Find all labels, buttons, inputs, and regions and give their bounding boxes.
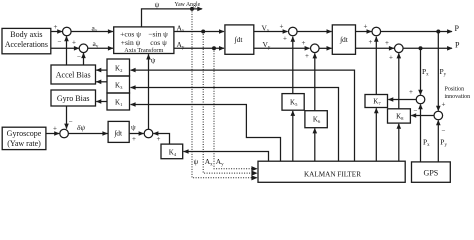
arrow K4 into S9: [153, 131, 159, 136]
block: Axis Transform: [114, 27, 174, 54]
rail1: dt2 to summer S5: [356, 31, 372, 33]
svg-text:Yaw Angle: Yaw Angle: [175, 2, 201, 8]
wire S10 to integrator dt3: [68, 133, 107, 135]
rail2: dt1 to summer S4 (V_y): [254, 47, 310, 49]
arrow S8 into K8: [411, 113, 417, 118]
svg-text:ψ: ψ: [194, 157, 199, 166]
arrow P output top: [447, 29, 453, 34]
wire dt3 to summer S9: [129, 133, 144, 135]
svg-text:+: +: [442, 101, 446, 109]
arrow dotted psi into Kalman: [251, 175, 257, 180]
summer S7 (P_x innovation): [416, 95, 425, 104]
arrow GPS up into S8: [436, 120, 441, 126]
wire K1 to Gyro Bias: [96, 101, 107, 103]
rail1: Axis Transform to integrator dt1 (A_x): [174, 31, 224, 33]
block: KALMAN FILTER: [258, 161, 405, 182]
rail1: S5 to output P: [381, 31, 452, 33]
svg-text:+: +: [305, 52, 309, 60]
rail2: Axis Transform to integrator dt1 (A_y): [174, 47, 224, 49]
svg-text:−: −: [69, 118, 73, 126]
arrow into S2: [74, 46, 80, 51]
arrow rail1 into dt1: [219, 29, 225, 34]
rail2: dt2 to summer S6: [356, 47, 395, 49]
arrow into S1: [57, 29, 63, 34]
arrow dotted A_y into Kalman: [251, 166, 257, 171]
svg-text:Accelerations: Accelerations: [5, 40, 48, 49]
dotted wire A_x to Kalman: [203, 32, 256, 174]
wire K4 up and into S9: [153, 134, 169, 145]
dotted wire psi to Kalman: [192, 9, 257, 178]
svg-text:Accel Bias: Accel Bias: [56, 71, 91, 80]
rail2: S4 to integrator dt2: [319, 47, 332, 49]
block: gain K7: [365, 95, 388, 108]
node on rail2 right (P): [419, 46, 423, 50]
block: gain K3: [107, 76, 130, 93]
arrow into S3: [283, 29, 289, 34]
arrow rail2 into dt2: [327, 46, 333, 51]
svg-text:+: +: [53, 125, 57, 133]
svg-text:ψ: ψ: [155, 0, 160, 9]
wire node rail1 down to summer S8: [437, 32, 439, 111]
block: gain K8: [388, 109, 411, 123]
svg-text:+: +: [72, 39, 76, 47]
arrow down into S7: [418, 90, 423, 96]
arrow dt3 into S9: [139, 131, 145, 136]
arrow rail2 into dt1: [219, 46, 225, 51]
wire Accel Bias up to S2: [83, 53, 85, 65]
wire S2 to Axis Transform (a_y): [88, 47, 113, 49]
arrow Kalman up into K6: [313, 128, 318, 133]
block: integrator dt2: [332, 25, 355, 54]
svg-text:innovation: innovation: [445, 94, 471, 100]
arrow down into S8: [436, 106, 441, 112]
summer S6: [395, 44, 404, 53]
wire node rail2 down to summer S7: [420, 48, 422, 94]
svg-text:ψ: ψ: [131, 123, 136, 132]
wire Gyro Bias down to summer S10: [66, 106, 68, 129]
wire K6 up to S4: [314, 53, 316, 110]
svg-text:+: +: [54, 23, 58, 31]
feedback line3 staircase into K1: [131, 105, 281, 162]
arrow Kalman up into K5: [291, 110, 296, 116]
svg-text:−: −: [414, 107, 418, 115]
wire K7 up to S5: [375, 37, 377, 95]
summer S2: [79, 44, 88, 53]
arrow into S4: [305, 46, 311, 51]
svg-text:+: +: [132, 135, 136, 143]
svg-text:∫dt: ∫dt: [113, 129, 123, 138]
block: gain K1: [107, 93, 130, 110]
svg-text:δψ: δψ: [77, 123, 85, 132]
arrow a_y into Axis Transform: [108, 46, 114, 51]
svg-text:+: +: [364, 23, 368, 31]
block: Body axis Accelerations: [2, 28, 51, 53]
svg-text:KALMAN FILTER: KALMAN FILTER: [304, 170, 361, 178]
block: gain K5: [282, 94, 304, 111]
wire GPS up to S7: [420, 105, 422, 162]
arrow K8 up into S6: [397, 53, 402, 59]
node on rail1 (A_x): [201, 30, 205, 34]
svg-text:Body axis: Body axis: [10, 30, 42, 39]
wire Kalman to K8: [398, 124, 400, 161]
summer S3: [289, 27, 298, 36]
wire Axis Transform top to yaw angle line: [142, 9, 203, 27]
wire S7 to K7: [388, 99, 416, 101]
arrow K3 into Accel Bias: [96, 80, 102, 85]
arrow K1 into Gyro Bias: [96, 99, 102, 104]
svg-text:∫dt: ∫dt: [339, 35, 349, 44]
block: gain K2: [107, 59, 130, 76]
wire GPS up to S8: [437, 121, 439, 162]
arrow P output bottom: [447, 46, 453, 51]
arrow yaw angle out: [197, 7, 203, 12]
arrow S10 into dt3: [102, 131, 108, 136]
svg-text:ψ: ψ: [151, 56, 156, 65]
svg-text:+sin ψ: +sin ψ: [121, 38, 141, 47]
arrow up into S1: [64, 36, 69, 42]
arrow S7 into K7: [388, 97, 394, 102]
wire K3 to Accel Bias: [96, 81, 107, 83]
arrow K7 up into S5: [374, 36, 379, 42]
rail1: S3 to integrator dt2: [297, 31, 332, 33]
rail2: S6 to output P: [403, 47, 452, 49]
block: Gyroscope (Yaw rate): [2, 127, 46, 149]
svg-text:+: +: [409, 88, 413, 96]
svg-text:P: P: [455, 40, 460, 49]
svg-text:−: −: [58, 38, 62, 46]
block: Accel Bias: [51, 65, 96, 84]
svg-text:+: +: [157, 135, 161, 143]
wire S9 up to Axis Transform (psi): [148, 54, 150, 129]
svg-text:Position: Position: [445, 87, 465, 93]
block: integrator dt1: [225, 25, 254, 54]
arrow line3 into K1: [130, 102, 136, 107]
wire Kalman to K6: [314, 129, 316, 162]
svg-text:+: +: [283, 35, 287, 43]
arrow line1 into K2: [130, 68, 136, 73]
arrow into S5: [367, 29, 373, 34]
svg-text:GPS: GPS: [424, 168, 439, 177]
arrow up into S2: [81, 53, 86, 59]
svg-text:+: +: [302, 39, 306, 47]
wire S1 to Axis Transform (a_x): [71, 31, 113, 33]
arrow K6 up into S4: [313, 53, 318, 59]
feedback line2 into K3: [131, 88, 339, 162]
arrow S9 psi up into Axis Transform: [146, 54, 151, 60]
svg-text:cos ψ: cos ψ: [150, 38, 167, 47]
wire Gyroscope to summer S10: [46, 133, 59, 135]
svg-text:(Yaw rate): (Yaw rate): [7, 139, 41, 148]
arrow Kalman up into K7: [374, 108, 379, 114]
arrow Gyroscope into S10: [54, 131, 60, 136]
arrow GPS up into S7: [418, 104, 423, 110]
node on rail2 (A_y): [212, 46, 216, 50]
wire S8 to K8: [411, 115, 434, 117]
summer S1: [63, 27, 72, 36]
wire Kalman to K5: [292, 111, 294, 161]
svg-text:−: −: [442, 127, 446, 135]
svg-text:Axis Transform: Axis Transform: [124, 47, 163, 54]
feedback line1 into K2: [131, 70, 355, 161]
svg-text:+: +: [385, 39, 389, 47]
wire K2 to Accel Bias: [96, 69, 107, 71]
summer S10 (yaw rate sum): [60, 129, 69, 138]
summer S8 (P_y innovation): [434, 111, 443, 120]
block: integrator dt3: [108, 121, 129, 142]
arrow K5 up into S3: [291, 36, 296, 42]
summer S5: [372, 27, 381, 36]
arrow Kalman up into K8: [397, 123, 402, 129]
svg-text:Gyro Bias: Gyro Bias: [57, 94, 90, 103]
svg-text:∫dt: ∫dt: [234, 35, 244, 44]
wire K5 up to S3: [292, 37, 294, 94]
arrow Kalman feed into K4: [183, 149, 189, 154]
wire Accel Bias up to S1: [66, 36, 68, 65]
svg-text:+: +: [389, 54, 393, 62]
arrow rail1 into dt2: [327, 29, 333, 34]
block: GPS: [412, 162, 451, 182]
arrow K2 into Accel Bias: [96, 68, 102, 73]
block: gain K6: [305, 111, 327, 128]
feed line from Kalman into K4: [184, 152, 269, 162]
node on yaw angle line: [190, 7, 194, 11]
arrow Gyro Bias down into S10: [64, 124, 69, 130]
block: gain K4: [161, 144, 183, 159]
svg-text:−: −: [77, 53, 81, 61]
summer S9 (yaw correction sum): [144, 129, 153, 138]
svg-text:P: P: [455, 24, 460, 33]
wire body rail2 to summer S2: [51, 47, 79, 49]
arrow a_x into Axis Transform: [108, 29, 114, 34]
arrow into S6: [389, 46, 395, 51]
arrow dotted A_x into Kalman: [251, 171, 257, 176]
svg-text:+: +: [369, 38, 373, 46]
rail1: dt1 to summer S3 (V_x): [254, 31, 288, 33]
svg-text:+: +: [280, 23, 284, 31]
arrow line2 into K3: [130, 85, 136, 90]
summer S4: [311, 44, 320, 53]
wire Kalman to K7: [375, 108, 377, 161]
wire body to summer S1: [51, 31, 62, 33]
svg-text:Gyroscope: Gyroscope: [7, 129, 42, 138]
wire K8 up to S6: [398, 53, 400, 108]
node on rail1 right (P): [436, 30, 440, 34]
dotted wire A_y to Kalman: [214, 48, 257, 168]
block: Gyro Bias: [51, 90, 96, 106]
